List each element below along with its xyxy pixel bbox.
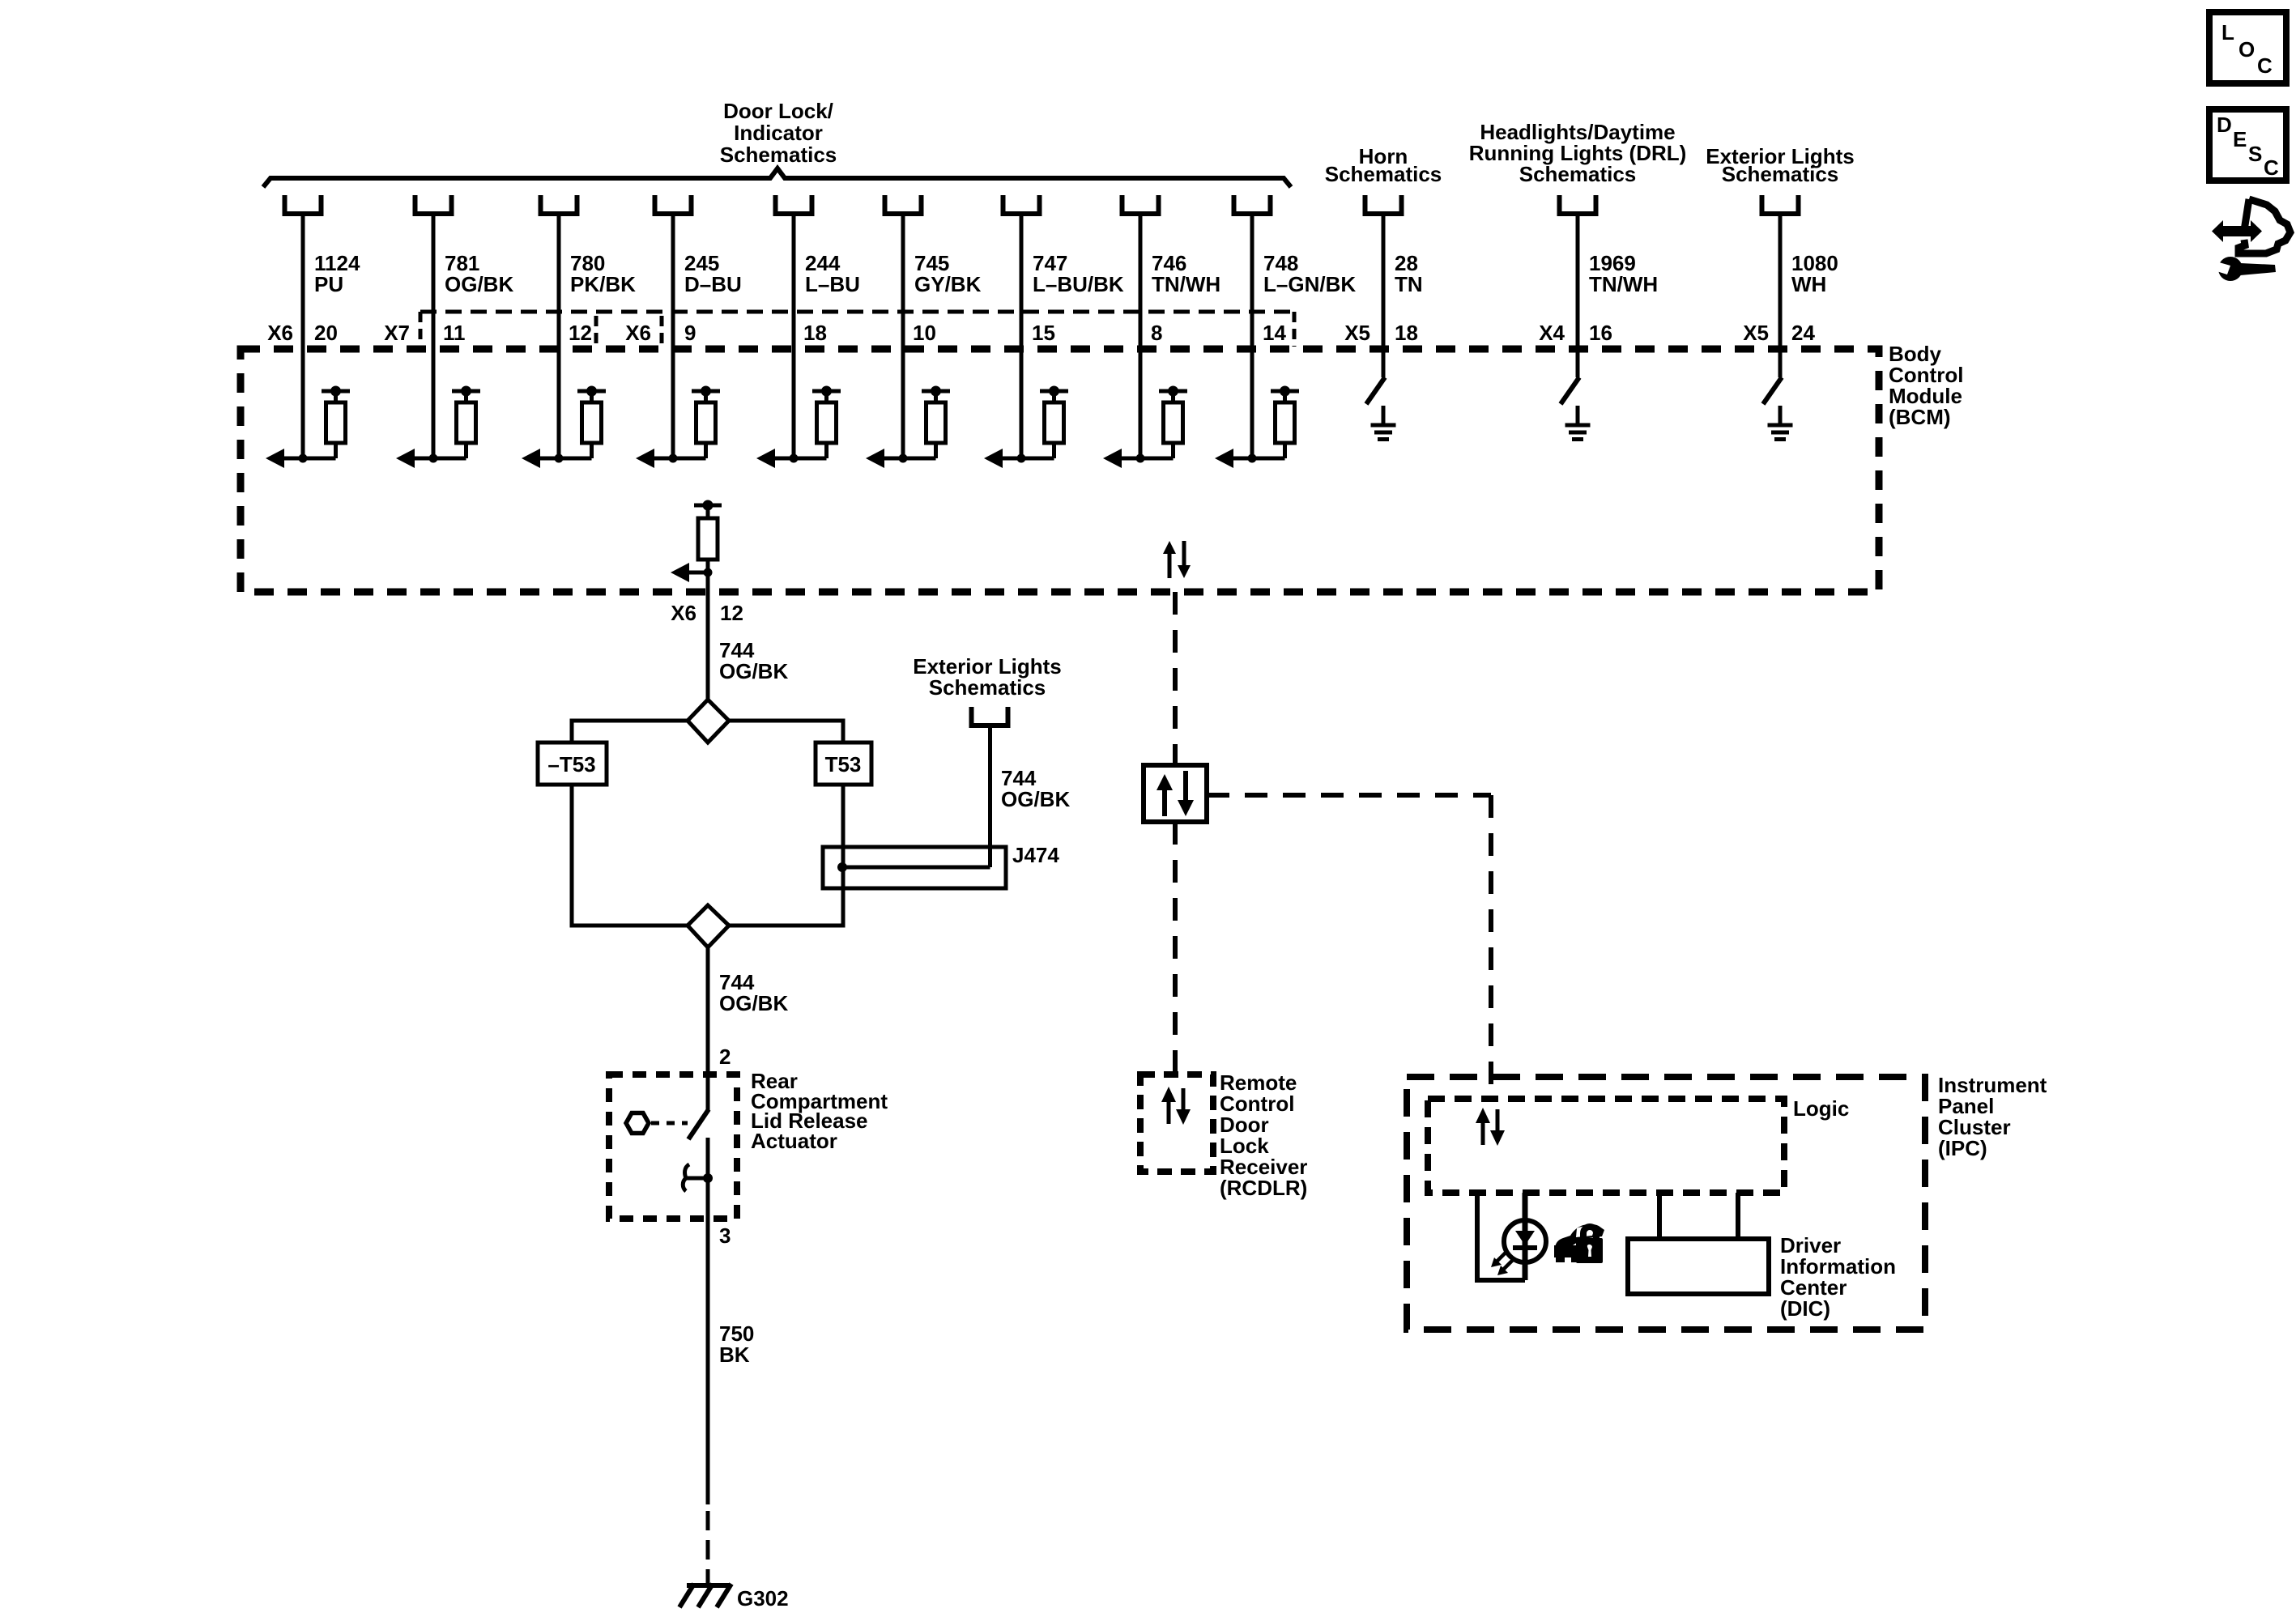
wire 744 OG/BK (BCM output)	[706, 572, 710, 700]
connector to Horn Schematics	[1365, 195, 1402, 214]
connector to Door Lock/Indicator Schematics #5	[776, 195, 812, 214]
svg-text:16: 16	[1589, 321, 1612, 345]
svg-text:Schematics: Schematics	[1519, 162, 1637, 186]
svg-text:L: L	[2221, 20, 2234, 45]
svg-text:(RCDLR): (RCDLR)	[1220, 1176, 1307, 1200]
wire 781 OG/BK	[432, 216, 436, 458]
junction node wire 245	[669, 454, 678, 463]
wire bracket (Door Lock/Indicator Schematics group)	[263, 168, 1291, 187]
connector to Door Lock/Indicator Schematics #4	[655, 195, 692, 214]
node label: Headlights/Daytime Running Lights (DRL) Schematics	[1469, 120, 1687, 186]
label: Rear Compartment Lid Release Actuator	[751, 1069, 888, 1153]
ground (BCM internal, Horn Schematics)	[1371, 406, 1396, 440]
junction node wire 1124	[299, 454, 308, 463]
switch (BCM low-side driver, Headlights/DRL Schematics)	[1561, 377, 1579, 404]
svg-text:20: 20	[314, 321, 338, 345]
serial data gateway node box	[1144, 765, 1207, 822]
svg-text:S: S	[2248, 142, 2262, 166]
arrow (BCM internal signal, wire 1124)	[266, 449, 336, 468]
ground (BCM internal, Exterior Lights Schematics)	[1768, 406, 1793, 440]
svg-text:TN/WH: TN/WH	[1152, 272, 1220, 296]
svg-text:14: 14	[1263, 321, 1286, 345]
arrow (BCM internal signal, wire 244)	[756, 449, 827, 468]
junction node wire 780	[555, 454, 564, 463]
junction node wire 781	[429, 454, 438, 463]
connector group dotted line	[420, 310, 1294, 314]
Driver Information Center (DIC) display box	[1628, 1239, 1769, 1294]
arrow (BCM internal signal, wire 780)	[522, 449, 592, 468]
label: Driver Information Center (DIC)	[1780, 1233, 1896, 1321]
Logic box	[1428, 1099, 1784, 1193]
LED emission arrows	[1495, 1252, 1506, 1263]
wire 1080 WH	[1778, 216, 1783, 377]
svg-text:X6: X6	[671, 601, 696, 625]
resistor (BCM pull-up, wire 781)	[452, 386, 480, 459]
wire from T53 through J474 to lower splice	[729, 785, 843, 926]
LED indicator circuit	[1477, 1193, 1546, 1280]
svg-text:C: C	[2264, 155, 2279, 180]
node label: Exterior Lights Schematics (middle)	[913, 654, 1061, 700]
connector to Door Lock/Indicator Schematics #3	[541, 195, 577, 214]
junction node (actuator)	[703, 1173, 713, 1183]
svg-text:Actuator: Actuator	[751, 1129, 837, 1153]
wire (actuator lower contact)	[706, 1138, 710, 1504]
wire to T53	[729, 721, 843, 743]
DESC legend box	[2209, 109, 2286, 181]
splice diamond (lower)	[688, 905, 729, 947]
svg-text:D: D	[2217, 113, 2232, 137]
arrow (BCM internal signal, wire 746)	[1103, 449, 1174, 468]
partition X6 left	[660, 316, 664, 347]
wire from -T53 down to lower splice	[572, 785, 688, 926]
arrow (BCM internal signal, wire 781)	[396, 449, 466, 468]
wire 750 BK dashed tail	[706, 1511, 710, 1585]
svg-text:Schematics: Schematics	[720, 143, 837, 167]
wire 748 L–GN/BK	[1250, 216, 1254, 458]
svg-text:(DIC): (DIC)	[1780, 1296, 1830, 1321]
svg-text:18: 18	[1395, 321, 1418, 345]
connector to Exterior Lights Schematics (middle)	[972, 707, 1008, 726]
serial data wire (dashed, to RCDLR)	[1173, 822, 1178, 1074]
svg-text:Schematics: Schematics	[1325, 162, 1442, 186]
svg-text:–T53: –T53	[547, 752, 595, 777]
svg-text:J474: J474	[1012, 843, 1059, 867]
svg-text:24: 24	[1791, 321, 1815, 345]
junction node wire 748	[1248, 454, 1257, 463]
resistor (BCM pull-up, wire 780)	[577, 386, 606, 459]
svg-text:GY/BK: GY/BK	[914, 272, 982, 296]
serial data arrows (RCDLR)	[1161, 1087, 1191, 1125]
arrow (BCM internal signal, wire 744)	[671, 563, 708, 582]
node label: Horn Schematics	[1325, 144, 1442, 186]
svg-text:WH: WH	[1791, 272, 1826, 296]
bolt (mechanical latch)	[626, 1113, 649, 1134]
wire 244 L–BU	[792, 216, 796, 458]
Remote Control Door Lock Receiver (RCDLR) box	[1140, 1074, 1213, 1172]
switch blade (actuator)	[688, 1109, 709, 1139]
svg-text:10: 10	[913, 321, 936, 345]
mechanical link (dashed)	[651, 1121, 688, 1126]
wire 744 OG/BK (to J474)	[988, 728, 992, 867]
splice pack J474	[823, 847, 1006, 888]
part/tool icon	[2212, 199, 2290, 281]
connector to Exterior Lights Schematics	[1762, 195, 1799, 214]
resistor (BCM pull-up, wire 748)	[1271, 386, 1299, 459]
junction node wire 244	[790, 454, 799, 463]
junction node wire 744	[704, 568, 713, 577]
svg-text:Schematics: Schematics	[929, 675, 1046, 700]
resistor (BCM pull-up, wire 244)	[812, 386, 841, 459]
svg-text:OG/BK: OG/BK	[445, 272, 513, 296]
svg-text:Schematics: Schematics	[1722, 162, 1839, 186]
LOC legend box	[2209, 12, 2286, 83]
resistor (BCM pull-up, wire 747)	[1040, 386, 1068, 459]
resistor (BCM pull-up, wire 746)	[1159, 386, 1187, 459]
connector to Headlights/DRL Schematics	[1560, 195, 1596, 214]
svg-text:D–BU: D–BU	[684, 272, 742, 296]
svg-text:11: 11	[443, 321, 466, 345]
connector to Door Lock/Indicator Schematics #2	[415, 195, 452, 214]
svg-text:2: 2	[719, 1045, 731, 1069]
junction node wire 747	[1017, 454, 1026, 463]
connector to Door Lock/Indicator Schematics #9	[1234, 195, 1271, 214]
resistor (BCM driver, wire 744)	[694, 500, 722, 573]
wire 245 D–BU	[671, 216, 675, 458]
node label: Door Lock/Indicator Schematics	[720, 99, 837, 167]
resistor (BCM pull-up, wire 745)	[922, 386, 950, 459]
car with lock icon	[1554, 1223, 1604, 1263]
svg-text:18: 18	[803, 321, 827, 345]
connector to Door Lock/Indicator Schematics #7	[1003, 195, 1040, 214]
svg-text:L–GN/BK: L–GN/BK	[1263, 272, 1356, 296]
actuator plunger symbol	[685, 1177, 708, 1181]
serial data arrows (BCM)	[1163, 541, 1191, 578]
wire 744 OG/BK to actuator	[706, 947, 710, 1110]
svg-text:O: O	[2238, 37, 2255, 62]
splice diamond (upper)	[688, 700, 729, 743]
junction node wire 745	[899, 454, 908, 463]
wire 747 L–BU/BK	[1020, 216, 1024, 458]
svg-text:3: 3	[719, 1223, 731, 1248]
connector to Door Lock/Indicator Schematics #6	[885, 195, 922, 214]
svg-text:12: 12	[569, 321, 592, 345]
Instrument Panel Cluster (IPC) box	[1407, 1077, 1925, 1330]
svg-text:TN/WH: TN/WH	[1589, 272, 1658, 296]
svg-text:(BCM): (BCM)	[1889, 405, 1951, 429]
serial data wire (dashed, BCM to gateway)	[1173, 592, 1178, 765]
terminal -T53	[538, 743, 607, 785]
svg-text:E: E	[2233, 127, 2247, 151]
DIC wires	[1657, 1193, 1662, 1239]
svg-text:Indicator: Indicator	[734, 121, 823, 145]
svg-text:PK/BK: PK/BK	[570, 272, 636, 296]
wire 746 TN/WH	[1139, 216, 1143, 458]
wire 780 PK/BK	[557, 216, 561, 458]
resistor (BCM pull-up, wire 245)	[692, 386, 720, 459]
svg-text:X6: X6	[625, 321, 651, 345]
label: Remote Control Door Lock Receiver (RCDLR)	[1220, 1070, 1307, 1200]
partition X7/X6	[594, 316, 598, 347]
arrow (BCM internal signal, wire 748)	[1215, 449, 1285, 468]
svg-text:OG/BK: OG/BK	[719, 991, 788, 1015]
partition X7 left	[419, 312, 423, 347]
svg-text:Logic: Logic	[1793, 1096, 1849, 1121]
arrow (BCM internal signal, wire 747)	[984, 449, 1054, 468]
label: Instrument Panel Cluster (IPC)	[1938, 1073, 2047, 1160]
wire 28 TN	[1382, 216, 1386, 377]
svg-text:OG/BK: OG/BK	[1001, 787, 1070, 811]
serial data wire (dashed, to IPC)	[1207, 793, 1491, 798]
svg-text:PU: PU	[314, 272, 343, 296]
serial data arrows (IPC logic)	[1476, 1108, 1505, 1146]
wire 1969 TN/WH	[1576, 216, 1580, 377]
svg-text:12: 12	[720, 601, 743, 625]
wire 745 GY/BK	[901, 216, 905, 458]
svg-text:TN: TN	[1395, 272, 1423, 296]
partition X6 right	[1293, 312, 1297, 347]
switch (BCM low-side driver, Horn Schematics)	[1366, 377, 1385, 404]
connector to Door Lock/Indicator Schematics #8	[1122, 195, 1159, 214]
wire 1124 PU	[301, 216, 305, 458]
wire to -T53	[572, 721, 688, 743]
ground (BCM internal, Headlights/DRL Schematics)	[1565, 406, 1591, 440]
node label: Exterior Lights Schematics (top)	[1706, 144, 1854, 186]
svg-text:X4: X4	[1539, 321, 1565, 345]
junction node wire 746	[1136, 454, 1145, 463]
connector to Door Lock/Indicator Schematics #1	[285, 195, 322, 214]
svg-text:8: 8	[1151, 321, 1162, 345]
svg-text:Door Lock/: Door Lock/	[723, 99, 833, 123]
label: Body Control Module (BCM)	[1889, 342, 1963, 429]
Rear Compartment Lid Release Actuator box	[609, 1074, 737, 1219]
svg-text:T53: T53	[825, 752, 862, 777]
svg-text:BK: BK	[719, 1343, 750, 1367]
Body Control Module (BCM) box	[241, 349, 1879, 592]
svg-text:C: C	[2257, 53, 2273, 78]
svg-text:OG/BK: OG/BK	[719, 659, 788, 683]
svg-text:G302: G302	[737, 1586, 789, 1611]
switch (BCM low-side driver, Exterior Lights Schematics)	[1763, 377, 1782, 404]
terminal T53	[816, 743, 871, 785]
arrow (BCM internal signal, wire 245)	[636, 449, 706, 468]
svg-text:9: 9	[684, 321, 696, 345]
svg-text:L–BU: L–BU	[805, 272, 860, 296]
svg-text:L–BU/BK: L–BU/BK	[1033, 272, 1124, 296]
svg-text:X5: X5	[1344, 321, 1370, 345]
svg-text:15: 15	[1032, 321, 1055, 345]
arrow (BCM internal signal, wire 745)	[866, 449, 936, 468]
svg-text:(IPC): (IPC)	[1938, 1136, 1987, 1160]
svg-text:X6: X6	[267, 321, 293, 345]
svg-text:X5: X5	[1743, 321, 1769, 345]
resistor (BCM pull-up, wire 1124)	[322, 386, 350, 459]
svg-text:X7: X7	[384, 321, 410, 345]
ground G302	[679, 1584, 731, 1607]
